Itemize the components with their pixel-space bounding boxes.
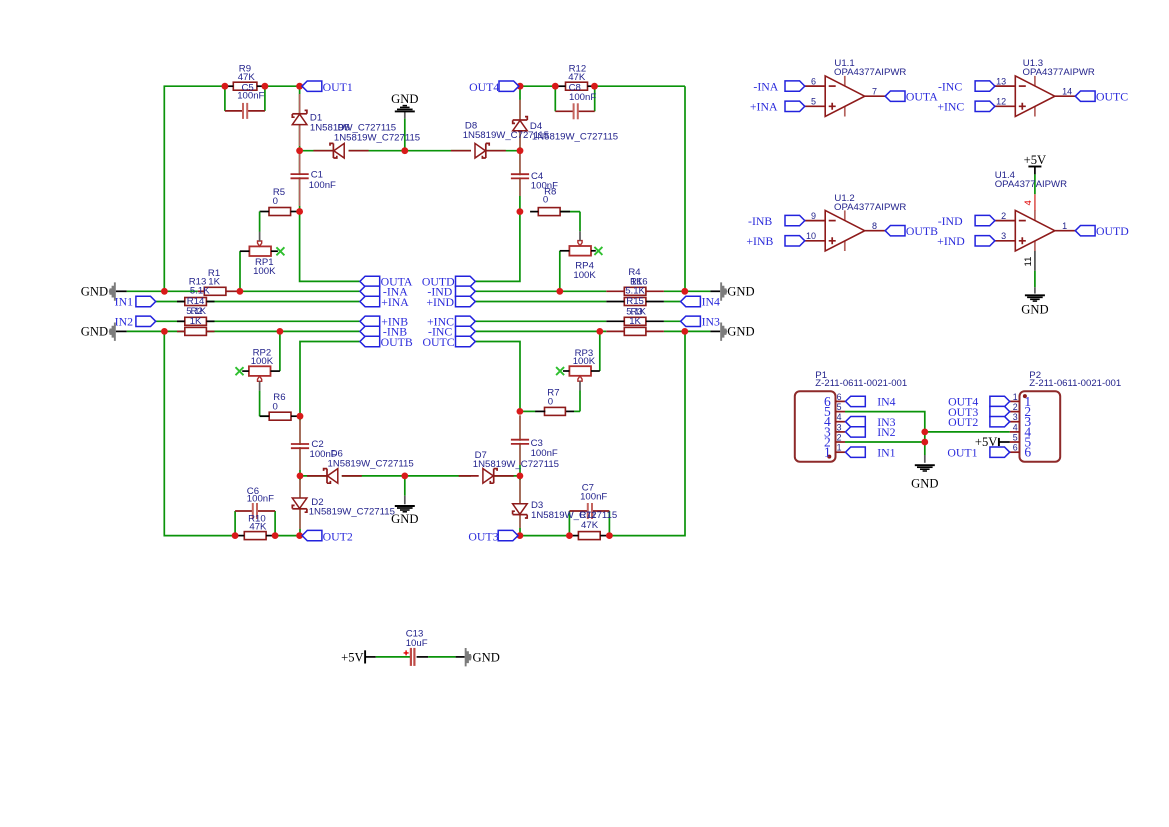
resistor R3 — [624, 317, 646, 325]
ground flag — [109, 282, 116, 300]
svg-text:5: 5 — [1013, 432, 1018, 442]
svg-text:6: 6 — [1013, 443, 1018, 453]
wire — [127, 290, 198, 292]
node OUTB — [885, 226, 905, 236]
svg-text:-INC: -INC — [938, 79, 962, 93]
svg-text:+INA: +INA — [381, 295, 409, 309]
svg-text:100nF: 100nF — [580, 492, 607, 503]
power +5V — [998, 438, 1000, 446]
svg-text:0: 0 — [273, 196, 278, 207]
wire — [156, 320, 185, 322]
wire — [486, 150, 520, 152]
svg-text:100K: 100K — [251, 356, 274, 367]
svg-text:1N5819W_C727115: 1N5819W_C727115 — [334, 133, 420, 144]
capacitor C4 — [519, 175, 522, 177]
pin 4 — [1010, 431, 1020, 433]
wire — [664, 320, 681, 322]
capacitor C2 — [299, 445, 302, 447]
diode D2 — [292, 508, 307, 510]
node OUTA — [360, 276, 380, 286]
resistor R12 — [566, 82, 588, 90]
svg-text:OUT2: OUT2 — [323, 529, 353, 543]
wire — [239, 251, 241, 291]
wire — [206, 320, 360, 322]
wire — [116, 330, 127, 332]
svg-text:OUT1: OUT1 — [323, 80, 353, 94]
junction — [272, 532, 279, 539]
wire — [404, 119, 406, 151]
node -INA — [360, 286, 380, 296]
svg-text:4: 4 — [837, 412, 842, 422]
svg-text:100K: 100K — [573, 356, 596, 367]
svg-text:OUT1: OUT1 — [947, 446, 977, 460]
node +INA — [360, 296, 380, 306]
wire — [459, 475, 479, 477]
capacitor C8 — [575, 110, 577, 113]
potentiometer RP3 — [569, 366, 591, 376]
node OUTC — [1075, 91, 1095, 101]
resistor R15b — [185, 327, 207, 335]
wire — [299, 416, 301, 476]
svg-text:GND: GND — [1021, 303, 1048, 317]
resistor R4 — [624, 287, 646, 295]
wire — [428, 656, 456, 658]
no-connect X — [594, 247, 602, 255]
op-amp U1.2 — [844, 210, 846, 220]
junction — [596, 328, 603, 335]
svg-text:14: 14 — [1062, 86, 1072, 96]
wire — [299, 420, 301, 443]
diode D8 — [485, 143, 487, 158]
ground — [924, 455, 926, 463]
node IN1 — [136, 296, 156, 306]
wire — [206, 301, 360, 303]
node +INC — [975, 101, 995, 111]
svg-text:1K: 1K — [208, 277, 220, 288]
pin 2 — [1010, 411, 1020, 413]
wire — [845, 441, 925, 443]
wire — [1034, 174, 1036, 194]
wire — [417, 656, 429, 658]
wire — [579, 391, 581, 412]
pin 1 — [836, 451, 846, 453]
node IN4 — [846, 396, 866, 406]
wire — [519, 476, 521, 536]
node OUT2 — [990, 417, 1010, 427]
svg-text:1N5819W_C727115: 1N5819W_C727115 — [309, 507, 395, 518]
no-connect X — [236, 367, 244, 375]
pin 5 — [836, 411, 846, 413]
wire — [684, 86, 686, 291]
wire — [300, 342, 360, 417]
svg-text:1K: 1K — [629, 316, 641, 327]
connector P2 — [1020, 391, 1061, 462]
svg-text:0: 0 — [273, 401, 278, 412]
node OUT4 — [990, 396, 1010, 406]
pin 1 — [1010, 400, 1020, 402]
wire — [313, 150, 333, 152]
wire — [609, 331, 685, 535]
ground — [395, 505, 415, 507]
svg-text:100nF: 100nF — [247, 494, 274, 505]
node OUTD — [1075, 226, 1095, 236]
svg-text:6: 6 — [837, 392, 842, 402]
svg-text:100nF: 100nF — [237, 91, 264, 102]
svg-text:3: 3 — [1013, 412, 1018, 422]
svg-text:3: 3 — [1001, 231, 1006, 241]
wire — [475, 301, 606, 303]
wire — [599, 331, 601, 371]
junction — [296, 532, 303, 539]
svg-text:100nF: 100nF — [309, 180, 336, 191]
svg-text:1N5819W_C727115: 1N5819W_C727115 — [531, 510, 617, 521]
no-connect X — [556, 367, 564, 375]
node OUT2 — [302, 530, 322, 540]
svg-text:+INB: +INB — [746, 234, 773, 248]
wire — [299, 86, 301, 151]
svg-text:+5V: +5V — [1024, 153, 1047, 167]
svg-text:1N5819W_C727115: 1N5819W_C727115 — [473, 459, 559, 470]
wire — [299, 480, 301, 498]
svg-text:7: 7 — [872, 86, 877, 96]
ground flag — [720, 282, 727, 300]
svg-text:5.1K: 5.1K — [625, 286, 645, 297]
svg-text:47K: 47K — [238, 72, 256, 83]
svg-text:OUTC: OUTC — [1096, 90, 1128, 104]
svg-text:IN4: IN4 — [702, 295, 720, 309]
node -INC — [456, 326, 476, 336]
wire — [519, 415, 521, 438]
svg-text:4: 4 — [1013, 422, 1018, 432]
svg-text:D4: D4 — [530, 121, 543, 132]
svg-text:100nF: 100nF — [569, 92, 596, 103]
wire — [519, 480, 521, 503]
svg-text:GND: GND — [81, 325, 108, 339]
capacitor C1 — [298, 175, 301, 177]
ground — [1025, 294, 1045, 296]
power +5V — [1028, 166, 1041, 168]
resistor R9 — [233, 82, 257, 90]
potentiometer RP4 — [569, 246, 591, 256]
capacitor C13 — [410, 648, 412, 666]
svg-text:100nF: 100nF — [531, 448, 558, 459]
pin 6 — [1010, 451, 1020, 453]
svg-text:OUT2: OUT2 — [948, 415, 978, 429]
wire — [300, 150, 334, 152]
junction — [517, 147, 524, 154]
wire — [260, 415, 270, 417]
pin 4 — [836, 421, 846, 423]
svg-text:2: 2 — [837, 432, 842, 442]
wire — [164, 331, 235, 535]
wire — [259, 391, 261, 417]
capacitor C3 — [519, 441, 522, 443]
svg-text:IN2: IN2 — [877, 425, 895, 439]
ground flag — [109, 323, 116, 341]
svg-text:OPA4377AIPWR: OPA4377AIPWR — [834, 202, 906, 213]
svg-text:GND: GND — [391, 92, 418, 106]
node OUT4 — [499, 81, 519, 91]
node OUT3 — [498, 530, 518, 540]
diode D6 — [326, 469, 328, 484]
capacitor C5 — [244, 110, 246, 113]
node IN3 — [846, 417, 866, 427]
node +INB — [785, 236, 805, 246]
svg-text:GND: GND — [81, 285, 108, 299]
wire — [275, 535, 300, 537]
junction — [262, 83, 269, 90]
junction — [921, 429, 928, 436]
ground flag — [720, 323, 727, 341]
svg-text:5: 5 — [811, 97, 816, 107]
junction — [556, 288, 563, 295]
pin 3 — [1010, 421, 1020, 423]
op-amp U1.4 — [1034, 210, 1036, 220]
resistor R11 — [578, 532, 600, 540]
wire — [265, 85, 300, 87]
junction — [297, 473, 304, 480]
svg-text:1N5819W_C727115: 1N5819W_C727115 — [532, 132, 618, 143]
svg-text:GND: GND — [391, 512, 418, 526]
node OUTB — [360, 336, 380, 346]
svg-text:IN1: IN1 — [115, 295, 133, 309]
svg-text:6: 6 — [811, 76, 816, 86]
node +INC — [456, 316, 476, 326]
junction — [237, 288, 244, 295]
wire — [568, 511, 570, 536]
svg-text:GND: GND — [473, 650, 500, 664]
wire — [664, 301, 681, 303]
node OUTD — [456, 276, 476, 286]
svg-text:1K: 1K — [190, 316, 202, 327]
svg-text:9: 9 — [811, 211, 816, 221]
wire — [1034, 167, 1036, 175]
no-connect X — [276, 247, 284, 255]
junction — [606, 532, 613, 539]
wire — [235, 510, 253, 512]
junction — [222, 83, 229, 90]
resistor R15 — [624, 298, 646, 306]
pin 3 — [836, 431, 846, 433]
wire — [475, 320, 606, 322]
wire — [405, 150, 471, 152]
svg-text:+INC: +INC — [937, 100, 964, 114]
pin 6 — [836, 400, 846, 402]
wire — [451, 150, 471, 152]
svg-text:-IND: -IND — [938, 214, 963, 228]
resistor R8 — [538, 208, 560, 216]
svg-text:+IND: +IND — [937, 234, 965, 248]
resistor R14 — [185, 298, 207, 306]
node IN1 — [846, 447, 866, 457]
node IN4 — [681, 296, 701, 306]
node OUTA — [885, 91, 905, 101]
wire — [519, 100, 521, 120]
wire — [376, 656, 411, 658]
svg-text:2: 2 — [1001, 211, 1006, 221]
junction — [517, 208, 524, 215]
svg-text:10: 10 — [806, 231, 816, 241]
node +IND — [456, 296, 476, 306]
node -INC — [975, 81, 995, 91]
wire — [475, 212, 520, 282]
svg-text:4: 4 — [1023, 200, 1034, 205]
svg-text:100K: 100K — [253, 266, 276, 277]
wire — [164, 86, 225, 291]
junction — [681, 328, 688, 335]
resistor R6 — [269, 412, 291, 420]
node -INB — [360, 326, 380, 336]
capacitor C7 — [589, 510, 591, 513]
svg-text:6: 6 — [1024, 445, 1031, 460]
wire — [279, 331, 281, 371]
power +5V — [364, 650, 366, 663]
svg-text:2: 2 — [1013, 402, 1018, 412]
wire — [404, 476, 406, 496]
wire — [519, 86, 521, 151]
wire — [555, 110, 573, 112]
svg-text:0: 0 — [543, 195, 548, 206]
wire — [520, 85, 555, 87]
op-amp U1.3 — [1034, 76, 1036, 86]
wire — [710, 330, 720, 332]
wire — [664, 290, 711, 292]
wire — [519, 151, 521, 212]
svg-text:OUTD: OUTD — [1096, 224, 1129, 238]
wire — [299, 476, 301, 536]
svg-text:IN4: IN4 — [877, 395, 895, 409]
resistor R7 — [545, 407, 566, 415]
wire — [234, 511, 236, 536]
junction — [552, 83, 559, 90]
svg-text:47K: 47K — [249, 522, 267, 533]
junction — [517, 532, 524, 539]
node +IND — [975, 236, 995, 246]
junction — [921, 439, 928, 446]
junction — [401, 147, 408, 154]
diode D3 — [513, 514, 528, 516]
junction — [296, 83, 303, 90]
svg-text:+5V: +5V — [341, 651, 364, 665]
pin 5 — [1010, 441, 1020, 443]
svg-text:100K: 100K — [573, 270, 596, 281]
pin 11 — [1034, 251, 1036, 271]
ground — [395, 110, 415, 112]
resistor R2 — [185, 317, 207, 325]
node OUT3 — [990, 406, 1010, 416]
junction — [517, 83, 524, 90]
resistor R10 — [244, 532, 266, 540]
junction — [681, 288, 688, 295]
svg-text:1: 1 — [824, 445, 831, 460]
svg-text:1N5819W_C727115: 1N5819W_C727115 — [328, 459, 414, 470]
node OUT1 — [990, 447, 1010, 457]
svg-text:GND: GND — [727, 325, 754, 339]
wire — [519, 154, 521, 174]
wire — [520, 410, 536, 412]
wire — [225, 110, 243, 112]
pin 1 marker — [827, 455, 831, 459]
node IN2 — [136, 316, 156, 326]
wire — [349, 150, 405, 152]
node +INA — [785, 101, 805, 111]
svg-text:12: 12 — [996, 97, 1006, 107]
wire — [475, 330, 606, 332]
wire — [579, 212, 581, 232]
svg-text:OPA4377AIPWR: OPA4377AIPWR — [834, 67, 906, 78]
junction — [161, 288, 168, 295]
wire — [116, 290, 127, 292]
svg-text:13: 13 — [996, 76, 1006, 86]
resistor R16 — [624, 327, 646, 335]
junction — [566, 532, 573, 539]
wire — [569, 510, 587, 512]
svg-text:OUTC: OUTC — [422, 335, 454, 349]
junction — [591, 83, 598, 90]
svg-text:GND: GND — [727, 285, 754, 299]
svg-text:-INA: -INA — [753, 79, 778, 93]
svg-text:+INA: +INA — [750, 100, 778, 114]
node IN2 — [846, 427, 866, 437]
wire — [299, 154, 301, 174]
wire — [307, 475, 327, 477]
wire — [925, 431, 1010, 433]
node IN3 — [681, 316, 701, 326]
connector P1 — [795, 391, 836, 462]
resistor R1 — [204, 287, 226, 295]
potentiometer RP2 — [249, 366, 271, 376]
wire — [342, 475, 405, 477]
diode D7 — [493, 469, 495, 484]
node -INA — [785, 81, 805, 91]
junction — [296, 147, 303, 154]
wire — [519, 415, 521, 476]
wire — [475, 342, 520, 412]
node OUTC — [456, 336, 476, 346]
wire — [456, 656, 465, 658]
wire — [560, 211, 580, 213]
op-amp U1.1 — [844, 76, 846, 86]
svg-text:OUT4: OUT4 — [469, 80, 499, 94]
ground flag — [465, 648, 472, 666]
node -IND — [975, 215, 995, 225]
wire — [127, 330, 185, 332]
node +INB — [360, 316, 380, 326]
svg-text:1: 1 — [1062, 221, 1067, 231]
wire — [710, 290, 720, 292]
wire — [206, 330, 360, 332]
svg-text:OPA4377AIPWR: OPA4377AIPWR — [995, 179, 1067, 190]
svg-text:D5: D5 — [338, 122, 350, 133]
wire — [595, 85, 686, 87]
diode D5 — [332, 143, 334, 158]
wire — [1034, 287, 1036, 293]
wire — [299, 151, 301, 212]
wire — [494, 475, 520, 477]
wire — [845, 412, 925, 455]
capacitor C6 — [254, 510, 256, 513]
wire — [240, 290, 360, 292]
junction — [401, 473, 408, 480]
svg-text:1: 1 — [1013, 392, 1018, 402]
wire — [224, 86, 226, 111]
junction — [517, 408, 524, 415]
wire — [554, 86, 556, 111]
pin 2 — [836, 441, 846, 443]
wire — [565, 410, 574, 412]
svg-text:OUT3: OUT3 — [468, 529, 498, 543]
svg-text:IN3: IN3 — [702, 315, 720, 329]
